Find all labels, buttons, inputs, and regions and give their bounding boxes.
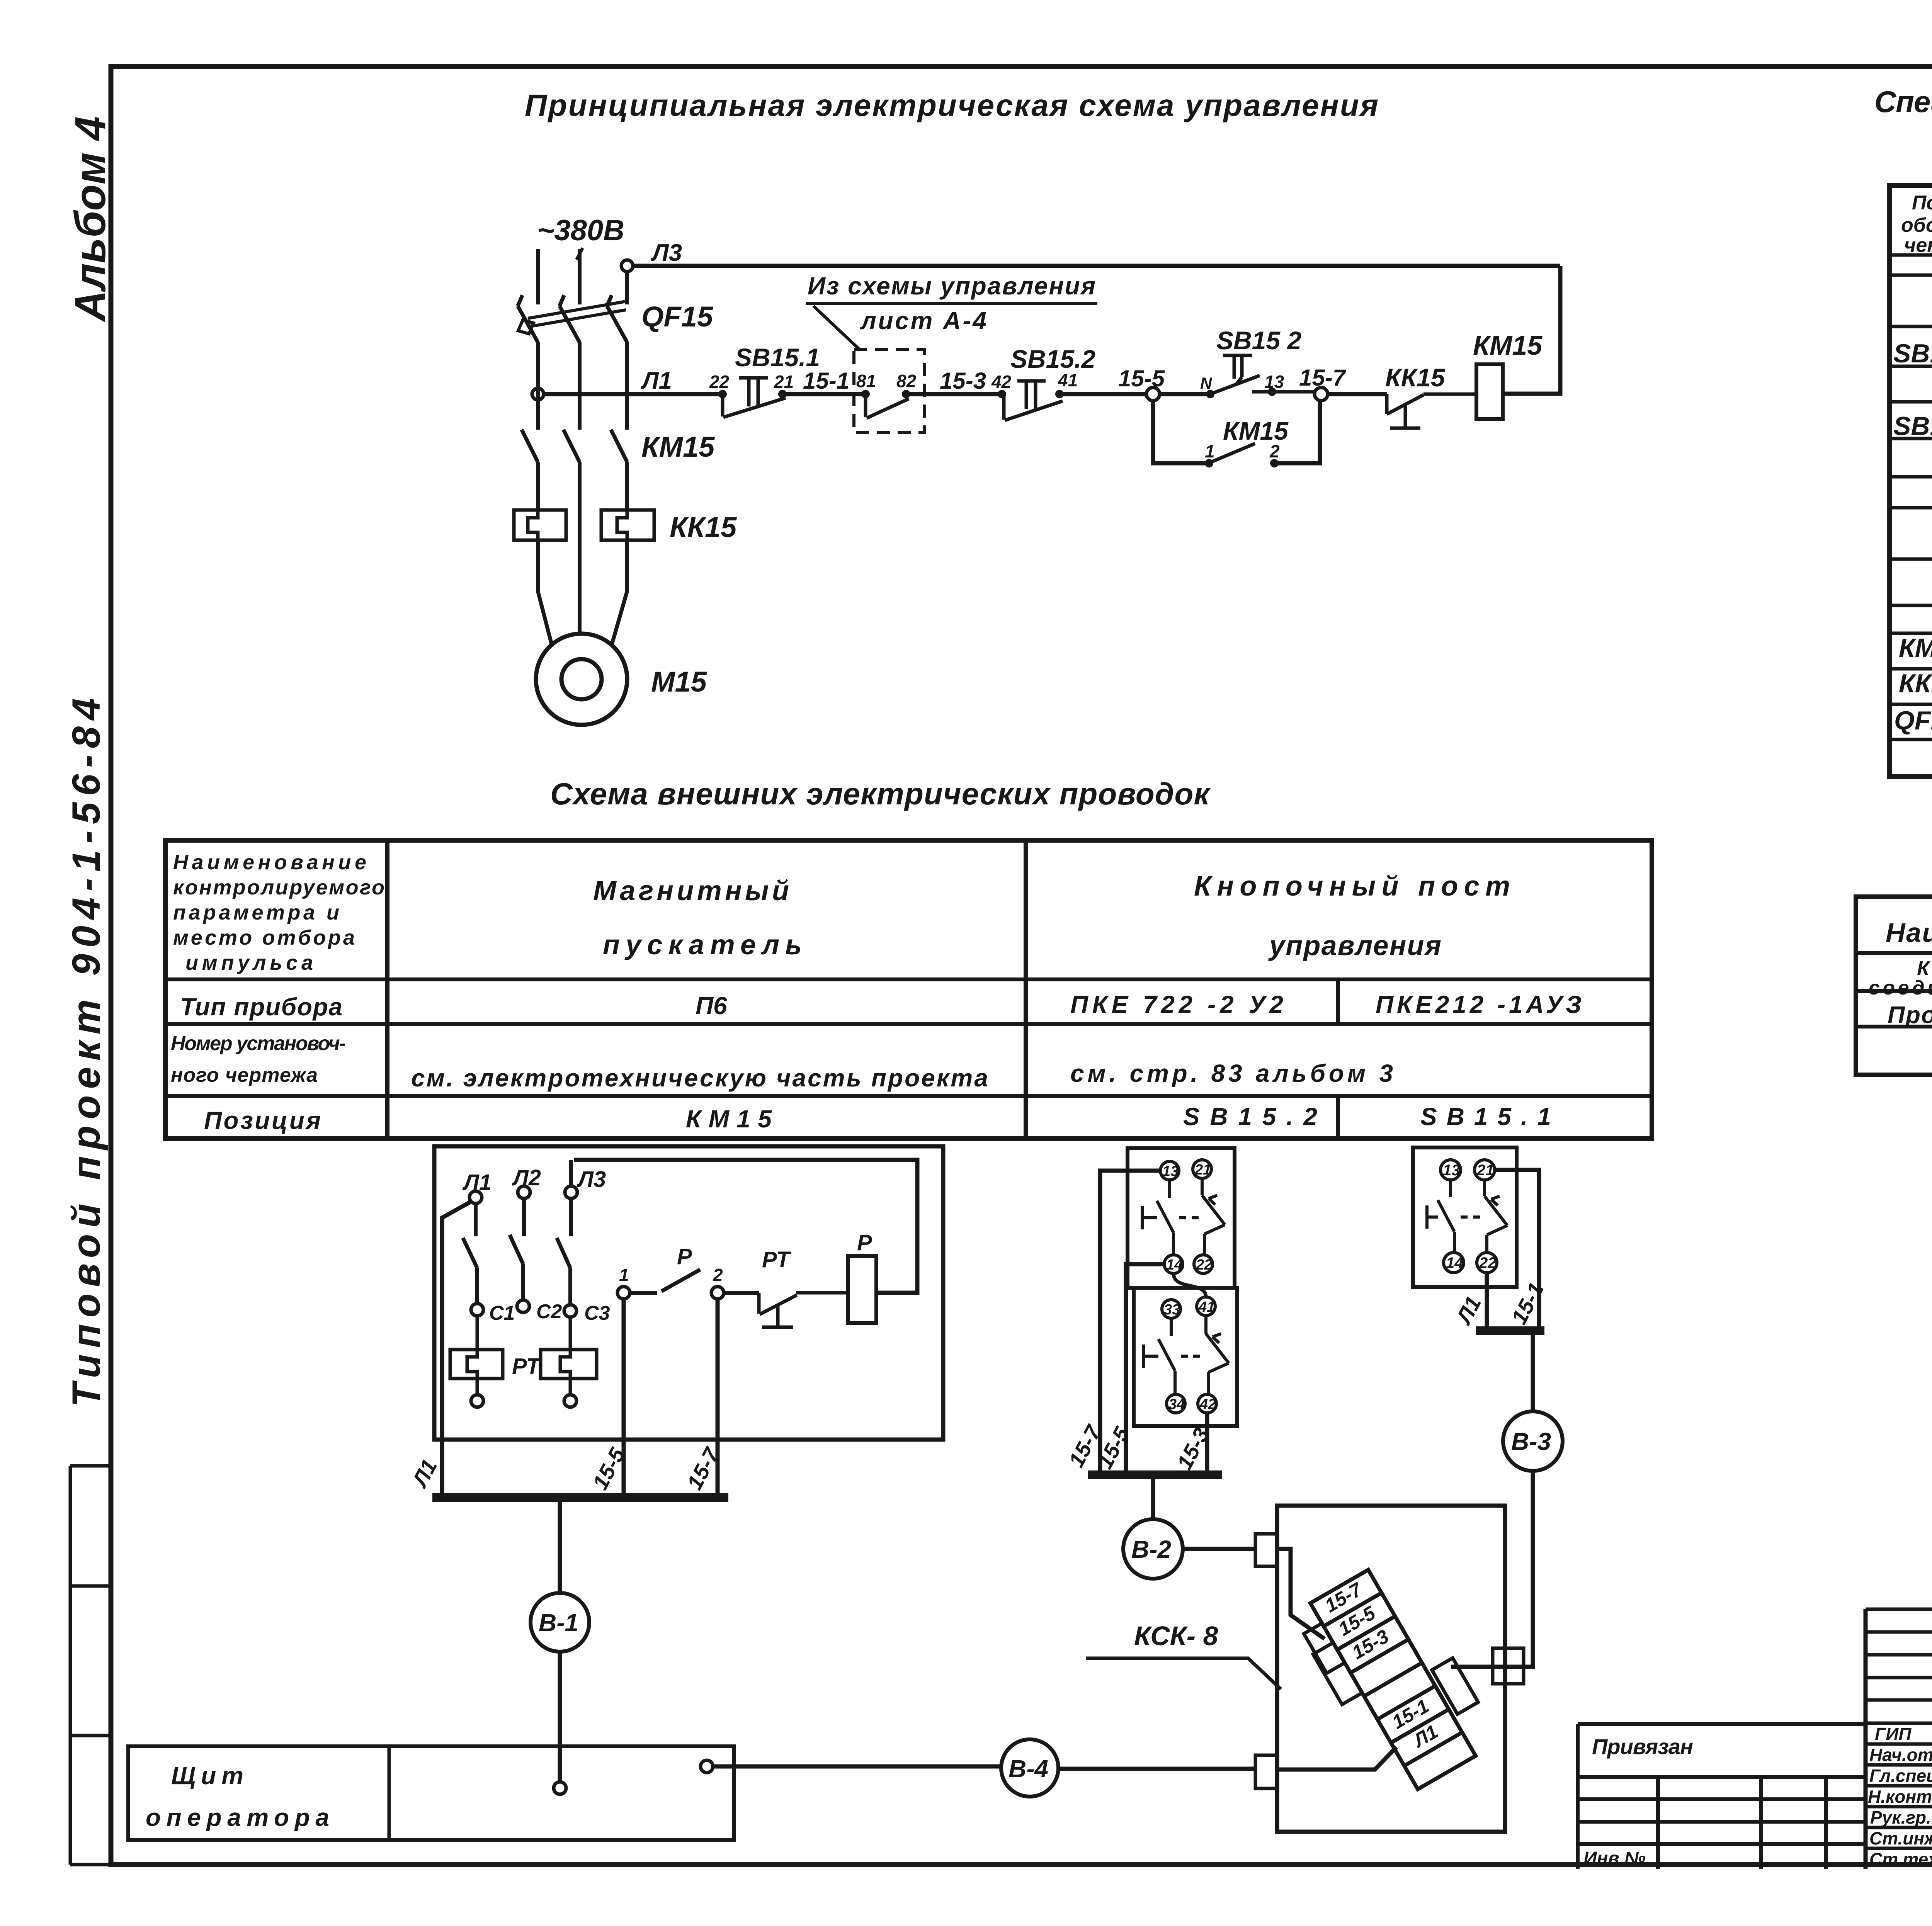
svg-text:22: 22 [709, 372, 730, 392]
svg-text:П6: П6 [696, 992, 727, 1020]
svg-text:22: 22 [1479, 1255, 1497, 1272]
svg-text:1: 1 [619, 1265, 629, 1285]
cable B-4 [713, 1739, 1255, 1797]
wire coil to Л3 [1503, 266, 1560, 394]
motor M15 [536, 634, 627, 725]
svg-text:импульса: импульса [185, 951, 313, 974]
table 2 header texts [1886, 908, 1932, 948]
table 1 row SB15.2 [1893, 339, 1932, 404]
interlock contact from sheet A-4 (dashed box) [854, 350, 924, 433]
svg-text:Л3: Л3 [651, 240, 682, 266]
SB15.2 terminal 34 [1167, 1394, 1185, 1413]
SB15.2 terminal 13 [1160, 1161, 1179, 1180]
svg-text:Нач.отд.: Нач.отд. [1869, 1745, 1932, 1765]
svg-text:В-2: В-2 [1131, 1535, 1171, 1563]
svg-text:2: 2 [713, 1265, 723, 1285]
wire 2 to PT contact [724, 1291, 759, 1295]
svg-text:Проводник: Проводник [1888, 1002, 1932, 1028]
SB15.1 wire 21 to 15-1 [1495, 1170, 1539, 1331]
SB15.1 terminal 22 [1477, 1253, 1497, 1273]
pushbutton SB15-2 start contact [1200, 326, 1315, 398]
svg-text:15-3: 15-3 [940, 368, 986, 394]
wire terminal 2 down [716, 1299, 720, 1498]
table 1 row SB15.1 [1893, 411, 1932, 479]
svg-text:Принципиальная электрическая: Принципиальная электрическая схема управ… [525, 88, 1378, 122]
table: specification 2 grid [1856, 897, 1932, 1075]
wire 15-3 [906, 392, 1002, 396]
svg-text:см. электротехническую часть: см. электротехническую часть проекта [411, 1064, 988, 1092]
wire to node 15-5 [1060, 392, 1147, 396]
svg-text:Л3: Л3 [577, 1167, 606, 1192]
svg-text:Л1: Л1 [462, 1170, 492, 1195]
SB15.2 terminal 22 [1194, 1255, 1213, 1273]
SB15.2 terminal 41 [1197, 1297, 1215, 1316]
terminal Л1 [469, 1191, 482, 1204]
svg-text:Схема внешних электрических: Схема внешних электрических проводок [550, 777, 1211, 811]
circuit breaker QF15 trip bar [518, 301, 626, 334]
thermal relay KK15 heater 2 [601, 510, 654, 540]
svg-text:Типовой проект 904-1-56-84: Типовой проект 904-1-56-84 [64, 698, 108, 1407]
starter thermal element 2 [541, 1317, 597, 1395]
cable B-2 [1123, 1475, 1255, 1579]
phase line 2 [560, 249, 580, 634]
table 1 row KM15 [1899, 633, 1932, 663]
svg-text:С1: С1 [489, 1302, 515, 1324]
thermal relay KK15 heater 1 [514, 510, 566, 540]
pushbutton station SB15.2 block 1 [1128, 1148, 1235, 1288]
svg-text:РТ: РТ [512, 1354, 541, 1379]
contactor coil KM15 [1473, 330, 1543, 419]
svg-text:контролируемого: контролируемого [173, 876, 384, 899]
tick on phase 2 [577, 248, 583, 260]
svg-text:1: 1 [1205, 441, 1215, 461]
SB15.2 cable bus [1088, 1470, 1222, 1479]
wiring table column 1 header [173, 851, 384, 974]
node 15-7 [1315, 388, 1328, 401]
node Л3 [621, 260, 633, 272]
SB15.2 link wire 14-41 [1173, 1273, 1206, 1297]
terminal C2 [517, 1300, 529, 1312]
svg-text:ГИП: ГИП [1875, 1724, 1912, 1744]
svg-text:ного чертежа: ного чертежа [171, 1064, 318, 1086]
panel terminal for B-4 [701, 1760, 713, 1773]
signature table texts [1868, 1724, 1932, 1869]
svg-text:15-1: 15-1 [803, 368, 849, 394]
starter cable bus [432, 1493, 728, 1502]
pushbutton SB15.2 stop contact [991, 345, 1095, 420]
SB15.2 terminal 21 [1193, 1160, 1211, 1178]
svg-text:КМ15: КМ15 [1899, 633, 1932, 663]
svg-text:Р: Р [677, 1244, 692, 1269]
terminal C3 [564, 1305, 577, 1317]
svg-text:обозна-: обозна- [1901, 214, 1932, 236]
svg-text:Щит: Щит [171, 1762, 243, 1790]
svg-text:С2: С2 [536, 1300, 562, 1323]
svg-text:В-4: В-4 [1009, 1755, 1048, 1783]
junction box KCK-8 enclosure [1277, 1506, 1505, 1832]
svg-text:РТ: РТ [762, 1247, 791, 1272]
B-4 wire inside box [1277, 1747, 1396, 1770]
svg-text:34: 34 [1168, 1396, 1185, 1413]
svg-text:QF15: QF15 [641, 301, 714, 333]
svg-text:Из схемы управления: Из схемы управления [808, 272, 1095, 300]
svg-text:КМ15: КМ15 [1223, 416, 1289, 445]
frame left attachment cells [70, 1466, 111, 1865]
table 2 row: junction box KCK-8 [1869, 957, 1932, 999]
wire 15-5 to start button [1160, 392, 1210, 396]
starter inner supply wire [574, 1160, 917, 1293]
wire Л1 to external bus [442, 1202, 471, 1498]
svg-text:пускатель: пускатель [603, 930, 802, 960]
svg-text:SB15.2: SB15.2 [1010, 345, 1095, 373]
table 1 row KK15 [1899, 669, 1932, 698]
SB15.1 terminal 14 [1444, 1253, 1464, 1273]
binding table (privyazan) [1578, 1724, 1866, 1869]
starter bottom terminal 1 [471, 1395, 483, 1407]
svg-text:Позиция: Позиция [204, 1107, 321, 1134]
svg-text:Номер установоч-: Номер установоч- [171, 1032, 346, 1055]
pushbutton station SB15.1 box [1413, 1147, 1517, 1287]
SB15.2 upper NO contact [1142, 1180, 1199, 1255]
SB15.2 terminal 42 [1198, 1394, 1216, 1413]
svg-text:SB15.2: SB15.2 [1893, 339, 1932, 368]
svg-text:82: 82 [896, 371, 917, 391]
SB15.1 terminal 13 [1440, 1160, 1461, 1180]
svg-text:В-1: В-1 [539, 1609, 578, 1637]
SB15.1 cable bus [1476, 1326, 1544, 1335]
SB15.2 terminal 14 [1164, 1255, 1183, 1273]
svg-text:Гл.спец.: Гл.спец. [1869, 1766, 1932, 1786]
node Л1 [532, 388, 544, 400]
auxiliary contact KM15 branch [1153, 401, 1320, 467]
wire to KK15 contact [1328, 392, 1387, 396]
svg-text:Ст.техн: Ст.техн [1869, 1849, 1932, 1869]
phase line 3 [607, 271, 627, 646]
svg-text:14: 14 [1446, 1255, 1463, 1272]
svg-text:Тип прибора: Тип прибора [180, 993, 342, 1021]
svg-text:КСК- 8: КСК- 8 [1134, 1621, 1218, 1651]
svg-text:41: 41 [1058, 370, 1078, 390]
wiring table row: position [204, 1103, 1551, 1134]
svg-text:13: 13 [1443, 1162, 1460, 1179]
svg-text:КМ15: КМ15 [1473, 330, 1543, 360]
terminal C1 [471, 1304, 483, 1316]
svg-text:Поз.: Поз. [1912, 192, 1932, 214]
panel terminal for B-1 [554, 1782, 566, 1794]
svg-text:QF15: QF15 [1894, 706, 1932, 735]
wiring table: push button post header [1194, 871, 1510, 961]
svg-text:81: 81 [856, 371, 876, 391]
svg-text:КК15: КК15 [670, 511, 737, 543]
starter pole 2 contact [510, 1198, 524, 1300]
svg-text:42: 42 [1199, 1396, 1216, 1413]
wire Л3 to inner bus [569, 1160, 573, 1186]
svg-text:Л1: Л1 [641, 367, 672, 394]
svg-text:КК15: КК15 [1385, 363, 1446, 392]
wire Л1 [544, 392, 723, 396]
SB15.2 upper NC contact [1202, 1178, 1225, 1255]
relay coil P [848, 1230, 876, 1323]
wire Л3 top [633, 264, 1560, 268]
starter pole 1 contact [463, 1204, 477, 1304]
svg-text:Альбом 4: Альбом 4 [66, 116, 114, 323]
svg-text:15-5: 15-5 [1118, 365, 1165, 391]
phase line 1 [518, 249, 552, 646]
table: specification 1 grid [1889, 185, 1932, 777]
wire terminal 1 down [622, 1299, 626, 1498]
svg-text:ПКЕ212 -1АУЗ: ПКЕ212 -1АУЗ [1376, 991, 1582, 1018]
terminal strip of KCK-8 [1290, 1555, 1501, 1801]
magnetic starter KM15 enclosure box [434, 1146, 943, 1440]
B-2 wire inside box [1277, 1549, 1325, 1639]
svg-text:21: 21 [774, 372, 794, 392]
svg-text:соединительная: соединительная [1869, 977, 1932, 999]
svg-text:SB15.1: SB15.1 [1893, 411, 1932, 441]
svg-text:41: 41 [1198, 1299, 1215, 1315]
svg-text:С3: С3 [584, 1302, 610, 1324]
svg-text:Л2: Л2 [512, 1165, 541, 1190]
svg-text:Р: Р [857, 1230, 872, 1255]
svg-text:КК15: КК15 [1899, 669, 1932, 698]
operator panel box [128, 1746, 734, 1840]
svg-text:33: 33 [1164, 1302, 1180, 1318]
svg-text:SB15 2: SB15 2 [1216, 326, 1301, 355]
table: wiring scheme grid [165, 840, 1652, 1139]
svg-text:Инв.№: Инв.№ [1583, 1848, 1646, 1869]
cable B-3 [1451, 1331, 1563, 1667]
SB15.1 NC contact [1485, 1180, 1507, 1253]
svg-text:Рук.гр.: Рук.гр. [1870, 1807, 1931, 1827]
svg-text:параметра и: параметра и [173, 901, 339, 924]
relay contact P with terminals 1,2 [617, 1244, 724, 1299]
svg-text:Привязан: Привязан [1592, 1734, 1693, 1759]
thermal relay PT contact [759, 1247, 848, 1327]
SB15.2 wire 15-7 [1100, 1171, 1160, 1475]
SB15.2 lower NC contact [1206, 1316, 1229, 1394]
starter bottom terminal 2 [564, 1395, 577, 1407]
table 1 row QF15 [1894, 706, 1932, 735]
pushbutton station SB15.2 block 2 [1134, 1288, 1237, 1426]
svg-text:М15: М15 [651, 666, 707, 698]
table 1 header texts [1901, 192, 1932, 257]
SB15.2 wire 15-3 [1205, 1413, 1209, 1475]
connector at box left for B-4 [1255, 1755, 1277, 1788]
title block signature table [1866, 1609, 1932, 1869]
svg-text:Магнитный: Магнитный [593, 875, 789, 906]
cable B-1 [531, 1498, 589, 1782]
svg-text:42: 42 [991, 372, 1012, 392]
table 2 row: conductor П550 [1888, 1002, 1932, 1029]
svg-text:SB15.1: SB15.1 [735, 343, 820, 372]
callout: from control scheme sheet A-4 [806, 272, 1097, 350]
svg-text:~380В: ~380В [537, 214, 624, 247]
terminal Л3 [565, 1186, 577, 1198]
svg-text:чение: чение [1904, 234, 1932, 257]
terminal Л2 [518, 1186, 530, 1198]
svg-text:Н.контр.: Н.контр. [1868, 1787, 1932, 1807]
svg-text:В-3: В-3 [1511, 1428, 1551, 1455]
connector at box left for B-2 [1255, 1534, 1277, 1566]
svg-text:лист А-4: лист А-4 [860, 307, 986, 335]
svg-text:21: 21 [1476, 1162, 1494, 1179]
thermal relay KK15 contact [1385, 363, 1476, 428]
wiring table row: installation drawing no [171, 1032, 1393, 1092]
SB15.2 terminal 33 [1162, 1300, 1180, 1318]
svg-text:2: 2 [1269, 441, 1280, 461]
svg-text:21: 21 [1194, 1162, 1211, 1178]
wire 15-1 [782, 392, 866, 396]
connector at box right for B-3 [1493, 1648, 1524, 1684]
svg-text:N: N [1200, 374, 1213, 392]
svg-text:Ст.инж.: Ст.инж. [1869, 1828, 1932, 1848]
wiring table row: device type [180, 991, 1582, 1021]
SB15.1 terminal 21 [1475, 1160, 1495, 1180]
svg-text:КМ15: КМ15 [686, 1105, 772, 1133]
SB15.2 wire 15-5 [1126, 1264, 1164, 1475]
wiring table: magnetic starter header [593, 875, 802, 960]
svg-text:14: 14 [1166, 1257, 1182, 1273]
starter thermal element 1 [450, 1316, 503, 1395]
pushbutton SB15.1 stop contact [709, 343, 820, 417]
svg-text:оператора: оператора [146, 1804, 329, 1831]
SB15.1 wire 22 down Л1 [1485, 1273, 1489, 1331]
SB15.2 lower NO contact [1144, 1318, 1200, 1394]
svg-text:КМ15: КМ15 [641, 431, 715, 463]
svg-text:13: 13 [1162, 1163, 1179, 1180]
KCK-8 callout label [1086, 1621, 1281, 1689]
node 15-5 [1146, 388, 1160, 401]
SB15.1 NO contact [1427, 1180, 1480, 1253]
starter pole 3 contact [557, 1198, 571, 1305]
svg-text:22: 22 [1196, 1257, 1212, 1273]
svg-text:Наименование: Наименование [1886, 918, 1932, 948]
svg-text:Спецификация принципиальной: Спецификация принципиальной электрическо… [1874, 85, 1932, 119]
